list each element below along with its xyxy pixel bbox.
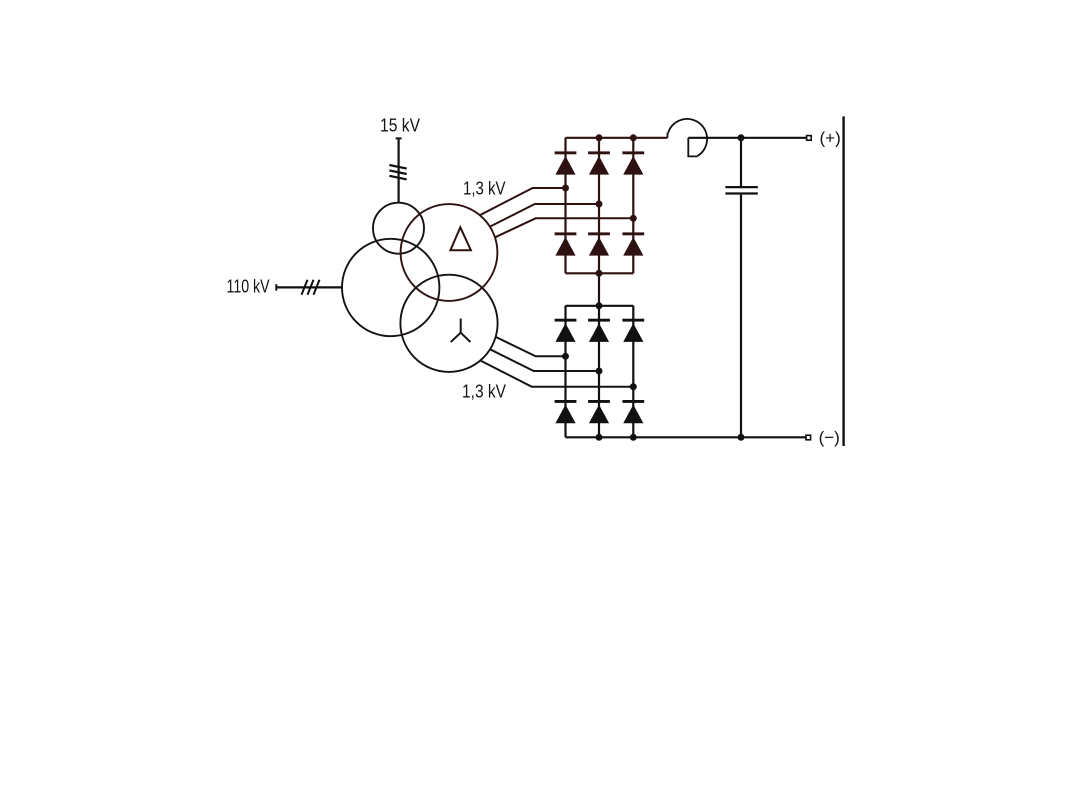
- wire delta phase a to bridge 1: [480, 188, 565, 215]
- junction bridge 1 bottom bus: [596, 270, 603, 277]
- diode D4 bridge 1 bottom row left: [555, 232, 577, 255]
- junction bridge 2 phase c: [630, 383, 637, 390]
- diode D1 bridge 1 top row left: [555, 151, 577, 174]
- transformer T1 delta secondary winding circle (1,3 kV): [401, 204, 498, 301]
- transformer T1 primary winding circle (110 kV): [342, 239, 439, 336]
- junction bridge 1 phase b: [596, 201, 603, 208]
- wire series link bridge1 to bridge2: [598, 273, 600, 306]
- bridge 1 bottom bus: [566, 272, 634, 274]
- negative rail bottom bus to terminal: [566, 436, 807, 438]
- junction bridge 2 bottom bus middle: [596, 434, 603, 441]
- junction bridge 2 phase a: [562, 353, 569, 360]
- bridge 2 middle leg: [598, 306, 600, 438]
- capacitor C1 top plate: [725, 186, 757, 188]
- terminal tick 15 kV feeder: [396, 137, 402, 139]
- three-phase slashes on 110 kV feeder: [302, 280, 320, 295]
- delta symbol inside winding: [450, 227, 471, 250]
- svg-text:(−): (−): [819, 428, 840, 447]
- smoothing reactor L1 arc: [668, 119, 707, 156]
- capacitor C1 bottom plate: [725, 192, 757, 194]
- wire 110 kV feeder horizontal: [276, 286, 342, 288]
- diode D10 bridge 2 bottom row left: [555, 400, 577, 423]
- terminal (+) square: [807, 136, 812, 141]
- transformer T1 wye secondary winding circle (1,3 kV): [400, 275, 497, 372]
- bridge 2 left leg: [564, 306, 566, 438]
- diode D6 bridge 1 bottom row right: [622, 232, 644, 255]
- transformer T1 tertiary winding circle (15 kV): [373, 203, 424, 254]
- bridge 2 right leg: [632, 306, 634, 438]
- diode D9 bridge 2 top row right: [622, 319, 644, 342]
- bridge 1 middle leg: [598, 138, 600, 273]
- bridge 2 top bus: [566, 305, 634, 307]
- junction bridge 2 phase b: [596, 368, 603, 375]
- junction bridge 2 bottom bus right: [630, 434, 637, 441]
- wire capacitor top lead: [740, 138, 742, 186]
- wire reactor to positive terminal: [688, 137, 807, 139]
- diode D2 bridge 1 top row middle: [588, 151, 610, 174]
- junction capacitor bottom: [738, 434, 745, 441]
- bridge 1 right leg: [632, 138, 634, 273]
- terminal (-) square: [806, 435, 811, 440]
- svg-text:110 kV: 110 kV: [227, 276, 270, 296]
- diode D3 bridge 1 top row right: [622, 151, 644, 174]
- wire wye phase b to bridge 2: [490, 349, 599, 371]
- wire wye phase c to bridge 2: [480, 361, 633, 387]
- junction capacitor top: [738, 134, 745, 141]
- svg-text:1,3 kV: 1,3 kV: [463, 178, 506, 198]
- wye symbol inside winding: [451, 319, 471, 343]
- junction bridge 1 phase c: [630, 215, 637, 222]
- wire capacitor bottom lead: [740, 195, 742, 438]
- bridge 1 top bus: [566, 137, 668, 139]
- wire 15 kV feeder vertical: [398, 138, 400, 203]
- diode D7 bridge 2 top row left: [555, 319, 577, 342]
- junction bridge 1 top bus middle: [596, 134, 603, 141]
- terminal tick 110 kV feeder: [275, 284, 277, 290]
- diode D5 bridge 1 bottom row middle: [588, 232, 610, 255]
- bridge 1 left leg: [564, 138, 566, 273]
- svg-text:15 kV: 15 kV: [380, 116, 420, 136]
- diode D8 bridge 2 top row middle: [588, 319, 610, 342]
- wire wye phase a to bridge 2: [496, 337, 566, 356]
- three-phase slashes on 15 kV feeder: [389, 165, 406, 179]
- svg-text:1,3 kV: 1,3 kV: [462, 382, 506, 402]
- junction bridge 1 phase a: [562, 185, 569, 192]
- figure right border line: [842, 116, 844, 446]
- diode D11 bridge 2 bottom row middle: [588, 400, 610, 423]
- smoothing reactor L1 inner elbow: [688, 138, 697, 157]
- diode D12 bridge 2 bottom row right: [622, 400, 644, 423]
- wire delta phase b to bridge 1: [490, 204, 599, 227]
- smoothing reactor L1 step: [667, 133, 669, 138]
- wire delta phase c to bridge 1: [495, 218, 633, 237]
- junction bridge 1 top bus right: [630, 134, 637, 141]
- svg-text:(+): (+): [820, 129, 841, 148]
- junction bridge 2 top bus: [596, 302, 603, 309]
